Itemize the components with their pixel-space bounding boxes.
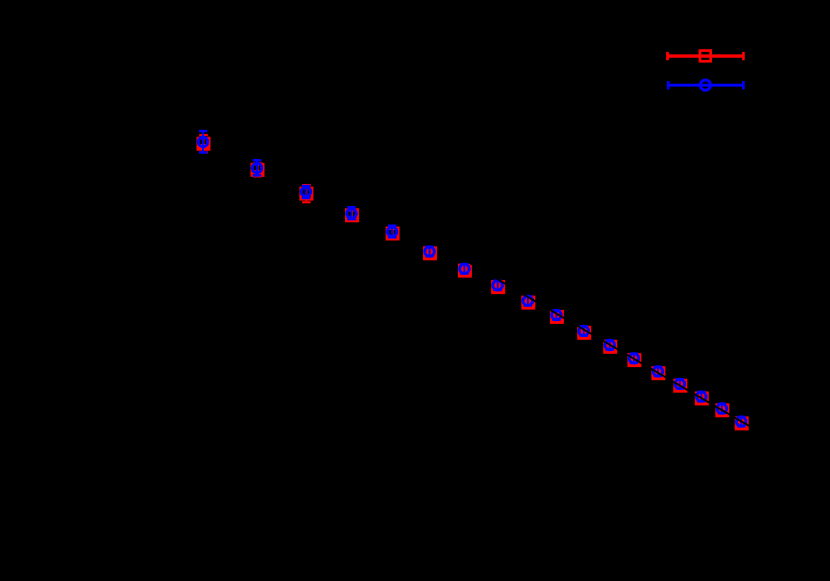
red errorbar point 11 — [577, 326, 591, 340]
red errorbar point 14 — [651, 366, 665, 380]
red errorbar point 12 — [603, 340, 617, 354]
red errorbar point 2 — [251, 163, 265, 176]
blue errorbar point 15 — [675, 379, 685, 389]
red errorbar point 17 — [715, 403, 729, 417]
blue errorbar point 4 — [347, 207, 357, 219]
red errorbar point 10 — [550, 310, 564, 324]
blue errorbar point 5 — [387, 226, 397, 238]
red errorbar point 6 — [423, 246, 437, 260]
blue errorbar point 11 — [579, 326, 589, 336]
blue errorbar point 7 — [460, 264, 470, 274]
blue errorbar point 18 — [736, 417, 746, 427]
blue errorbar point 2 — [252, 160, 262, 175]
blue errorbar point 9 — [523, 296, 533, 306]
blue errorbar point 16 — [697, 392, 707, 402]
red errorbar point 5 — [387, 228, 398, 239]
red errorbar point 1 — [197, 135, 211, 152]
red errorbar point 7 — [458, 264, 472, 278]
blue errorbar point 13 — [629, 354, 639, 364]
red errorbar point 9 — [521, 296, 535, 310]
red errorbar point 4 — [346, 210, 357, 221]
red errorbar point 13 — [627, 353, 641, 367]
blue errorbar point 12 — [605, 340, 615, 350]
blue errorbar point 8 — [493, 281, 503, 291]
legend blue errorbar entry — [668, 80, 743, 90]
legend red errorbar entry — [668, 51, 744, 62]
blue errorbar point 14 — [653, 367, 663, 377]
red errorbar point 15 — [673, 379, 687, 393]
blue errorbar point 6 — [425, 247, 435, 257]
blue errorbar point 1 — [198, 131, 208, 152]
red errorbar point 3 — [301, 185, 312, 202]
black fit line — [160, 83, 788, 449]
red errorbar point 16 — [695, 391, 709, 405]
red errorbar point 8 — [491, 280, 505, 294]
blue errorbar point 17 — [717, 404, 727, 414]
blue errorbar point 3 — [301, 186, 311, 198]
blue errorbar point 10 — [552, 310, 562, 320]
red errorbar point 18 — [735, 416, 749, 430]
